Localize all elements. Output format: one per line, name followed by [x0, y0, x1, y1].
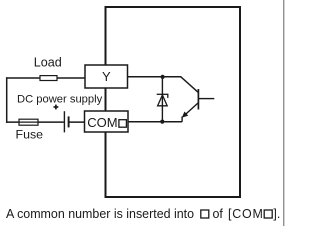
emitter stub to COM wire [181, 117, 183, 122]
wire: vertical through diode [161, 77, 163, 122]
svg-text:COM: COM [87, 115, 117, 130]
junction node (bottom) [160, 120, 164, 124]
transistor collector lead [181, 77, 198, 92]
svg-text:[COM: [COM [228, 207, 264, 221]
transistor base bar [197, 89, 199, 110]
transistor base lead [199, 98, 214, 100]
svg-text:Y: Y [102, 69, 111, 84]
transistor emitter lead with arrow [183, 103, 198, 117]
junction node (top) [161, 75, 165, 79]
wire: left vertical rail [6, 77, 8, 123]
wire: bottom-left horizontal from rail to battery [6, 121, 64, 123]
page right border (gray) [283, 0, 284, 226]
wire: battery to COM terminal [69, 121, 86, 123]
svg-text:Load: Load [34, 56, 62, 70]
caption square symbol 1 [201, 210, 209, 218]
wire: top-left horizontal from left rail to Y terminal [6, 77, 86, 79]
svg-text:of: of [213, 207, 224, 221]
terminal box COM [85, 111, 129, 132]
fuse F [19, 119, 38, 125]
caption square symbol 2 [264, 210, 272, 218]
battery plus sign [54, 105, 59, 110]
wire: Y terminal to collector bend [128, 76, 182, 78]
svg-text:Fuse: Fuse [16, 128, 44, 142]
svg-text:A common number is inserted in: A common number is inserted into [6, 207, 194, 221]
svg-text:DC power supply: DC power supply [17, 93, 103, 105]
zener diode D (surge suppressor) [157, 94, 169, 106]
battery (DC power supply) [64, 111, 68, 132]
PLC unit outline box [106, 7, 241, 197]
wire: COM terminal to emitter [128, 121, 182, 123]
transistor Q (output transistor) [181, 77, 215, 122]
svg-text:].: ]. [273, 207, 280, 221]
label: COM square symbol [119, 120, 127, 128]
resistor (Load) [40, 76, 57, 81]
terminal box Y [85, 65, 128, 88]
